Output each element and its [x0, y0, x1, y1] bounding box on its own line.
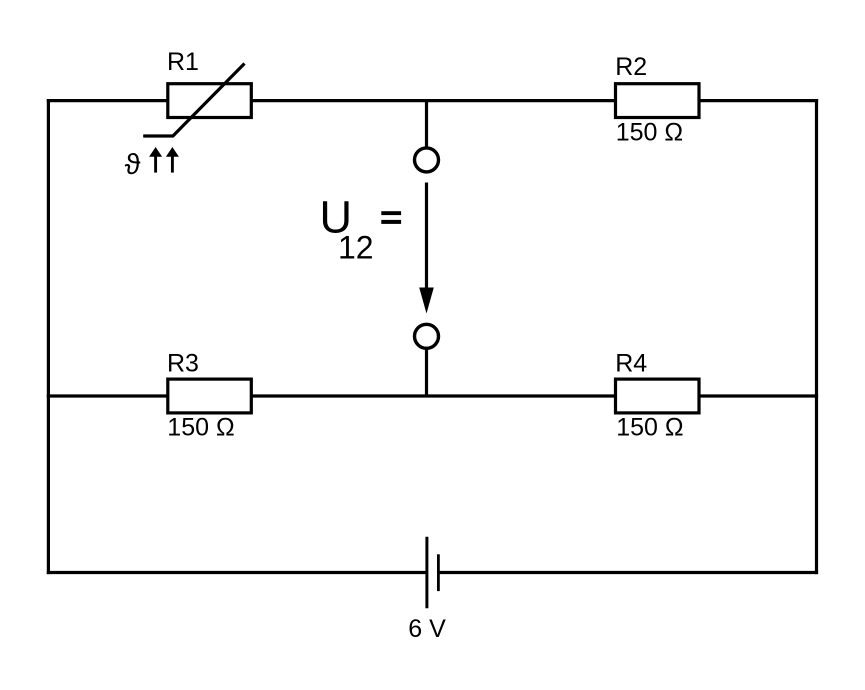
- temperature rise arrow 2: [166, 147, 179, 173]
- svg-text:150 Ω: 150 Ω: [616, 119, 683, 147]
- terminal 2 (lower circle): [415, 324, 439, 348]
- svg-text:150 Ω: 150 Ω: [167, 413, 234, 441]
- wire bottom right (from battery): [438, 571, 818, 574]
- wire center stub from top node to terminal 1: [425, 101, 428, 149]
- svg-text:R3: R3: [167, 349, 199, 377]
- svg-text:6 V: 6 V: [408, 615, 446, 643]
- wire bottom left (to battery): [47, 571, 427, 574]
- equals sign: [381, 211, 401, 224]
- svg-text:R4: R4: [615, 349, 647, 377]
- battery positive plate (long): [425, 537, 428, 609]
- terminal 1 (upper circle): [415, 148, 439, 172]
- resistor R2 body: [616, 84, 700, 118]
- wire middle bridge (node between R3 and R4): [47, 394, 818, 397]
- svg-text:R1: R1: [167, 48, 199, 76]
- svg-text:12: 12: [338, 230, 374, 266]
- temperature rise arrow 1: [149, 147, 162, 173]
- wire stub terminal 2 to middle bridge: [425, 349, 428, 397]
- battery negative plate (short): [437, 554, 440, 591]
- voltage arrow U12 head: [419, 288, 434, 314]
- resistor R3 body: [168, 379, 252, 413]
- resistor R1 body: [168, 84, 252, 118]
- voltage arrow U12 shaft: [425, 183, 428, 291]
- resistor R4 body: [616, 379, 700, 413]
- svg-text:150 Ω: 150 Ω: [616, 414, 683, 442]
- thermistor diagonal stroke of R1: [143, 64, 244, 137]
- wire top (node between R1 and R2): [47, 99, 818, 102]
- wire left branch: [47, 99, 50, 574]
- svg-text:ϑ: ϑ: [125, 149, 141, 181]
- wire right branch: [815, 99, 818, 574]
- svg-text:R2: R2: [615, 53, 647, 81]
